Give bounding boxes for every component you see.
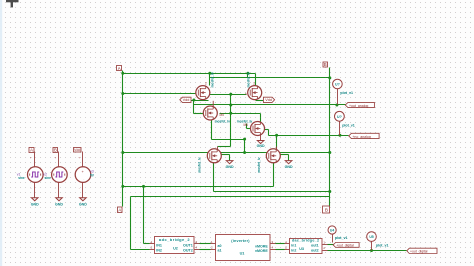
svg-text:plot_v1: plot_v1: [376, 244, 389, 248]
svg-text:-: -: [79, 187, 80, 191]
svg-text:Vdd: Vdd: [183, 98, 190, 102]
svg-text:+: +: [54, 156, 56, 160]
svg-text:2: 2: [205, 82, 207, 86]
svg-text:U1: U1: [240, 251, 245, 255]
svg-text:OUT1: OUT1: [183, 243, 193, 247]
svg-text:OUT2: OUT2: [183, 249, 193, 253]
svg-text:U5: U5: [369, 235, 373, 239]
svg-text:in1: in1: [291, 243, 296, 247]
svg-text:mosfet_lv: mosfet_lv: [246, 72, 250, 88]
svg-text:vMORE: vMORE: [255, 249, 268, 253]
svg-text:mosfet_lv: mosfet_lv: [215, 119, 231, 123]
svg-text:out2: out2: [311, 249, 319, 253]
svg-text:B: B: [324, 62, 327, 67]
svg-text:vMORE: vMORE: [255, 244, 268, 248]
svg-text:adc_bridge_2: adc_bridge_2: [159, 237, 191, 242]
svg-text:GND: GND: [55, 202, 63, 206]
svg-text:+no_analog: +no_analog: [352, 135, 370, 139]
svg-text:U2: U2: [173, 246, 178, 250]
svg-text:A: A: [118, 66, 121, 71]
svg-text:a1: a1: [218, 249, 222, 253]
svg-text:GND: GND: [257, 144, 265, 148]
svg-text:GND: GND: [31, 202, 39, 206]
svg-text:sine: sine: [45, 176, 52, 180]
svg-text:U?: U?: [335, 83, 340, 87]
svg-text:+out_digital: +out_digital: [336, 244, 354, 248]
svg-text:B: B: [325, 208, 328, 213]
svg-text:+: +: [78, 156, 80, 160]
svg-text:-: -: [31, 187, 32, 191]
svg-text:plot_v1: plot_v1: [340, 91, 353, 95]
svg-text:GND: GND: [79, 202, 87, 206]
svg-text:A: A: [30, 148, 33, 153]
svg-text:A: A: [118, 208, 121, 213]
svg-text:M6: M6: [244, 123, 249, 127]
svg-text:(inverter): (inverter): [231, 239, 250, 243]
svg-text:out1: out1: [311, 243, 319, 247]
svg-text:IN1: IN1: [156, 243, 162, 247]
svg-text:B: B: [54, 148, 57, 153]
svg-text:mosfet_lv: mosfet_lv: [257, 157, 261, 173]
svg-text:U4: U4: [330, 229, 334, 233]
svg-text:+: +: [30, 156, 32, 160]
svg-text:-: -: [55, 187, 56, 191]
svg-text:sine: sine: [18, 176, 25, 180]
svg-text:in2: in2: [291, 249, 296, 253]
svg-text:2: 2: [253, 82, 255, 86]
svg-text:dac_bridge_2: dac_bridge_2: [292, 239, 319, 243]
svg-text:IN2: IN2: [156, 249, 162, 253]
svg-text:U3: U3: [299, 247, 304, 251]
svg-text:plot_v1: plot_v1: [335, 236, 348, 240]
svg-text:Vdd: Vdd: [74, 148, 80, 152]
svg-text:mosfet_lv: mosfet_lv: [198, 157, 202, 173]
svg-text:+out_analog: +out_analog: [349, 104, 368, 108]
svg-text:GND: GND: [285, 165, 293, 169]
svg-text:mosfet_lv: mosfet_lv: [210, 72, 214, 88]
svg-text:+out_digital: +out_digital: [410, 250, 428, 254]
svg-text:plot_v1: plot_v1: [342, 123, 355, 127]
svg-text:GND: GND: [226, 165, 234, 169]
svg-text:a0: a0: [218, 244, 222, 248]
svg-text:M5: M5: [220, 113, 225, 117]
svg-text:Vdd: Vdd: [265, 98, 272, 102]
svg-text:U?: U?: [337, 115, 342, 119]
